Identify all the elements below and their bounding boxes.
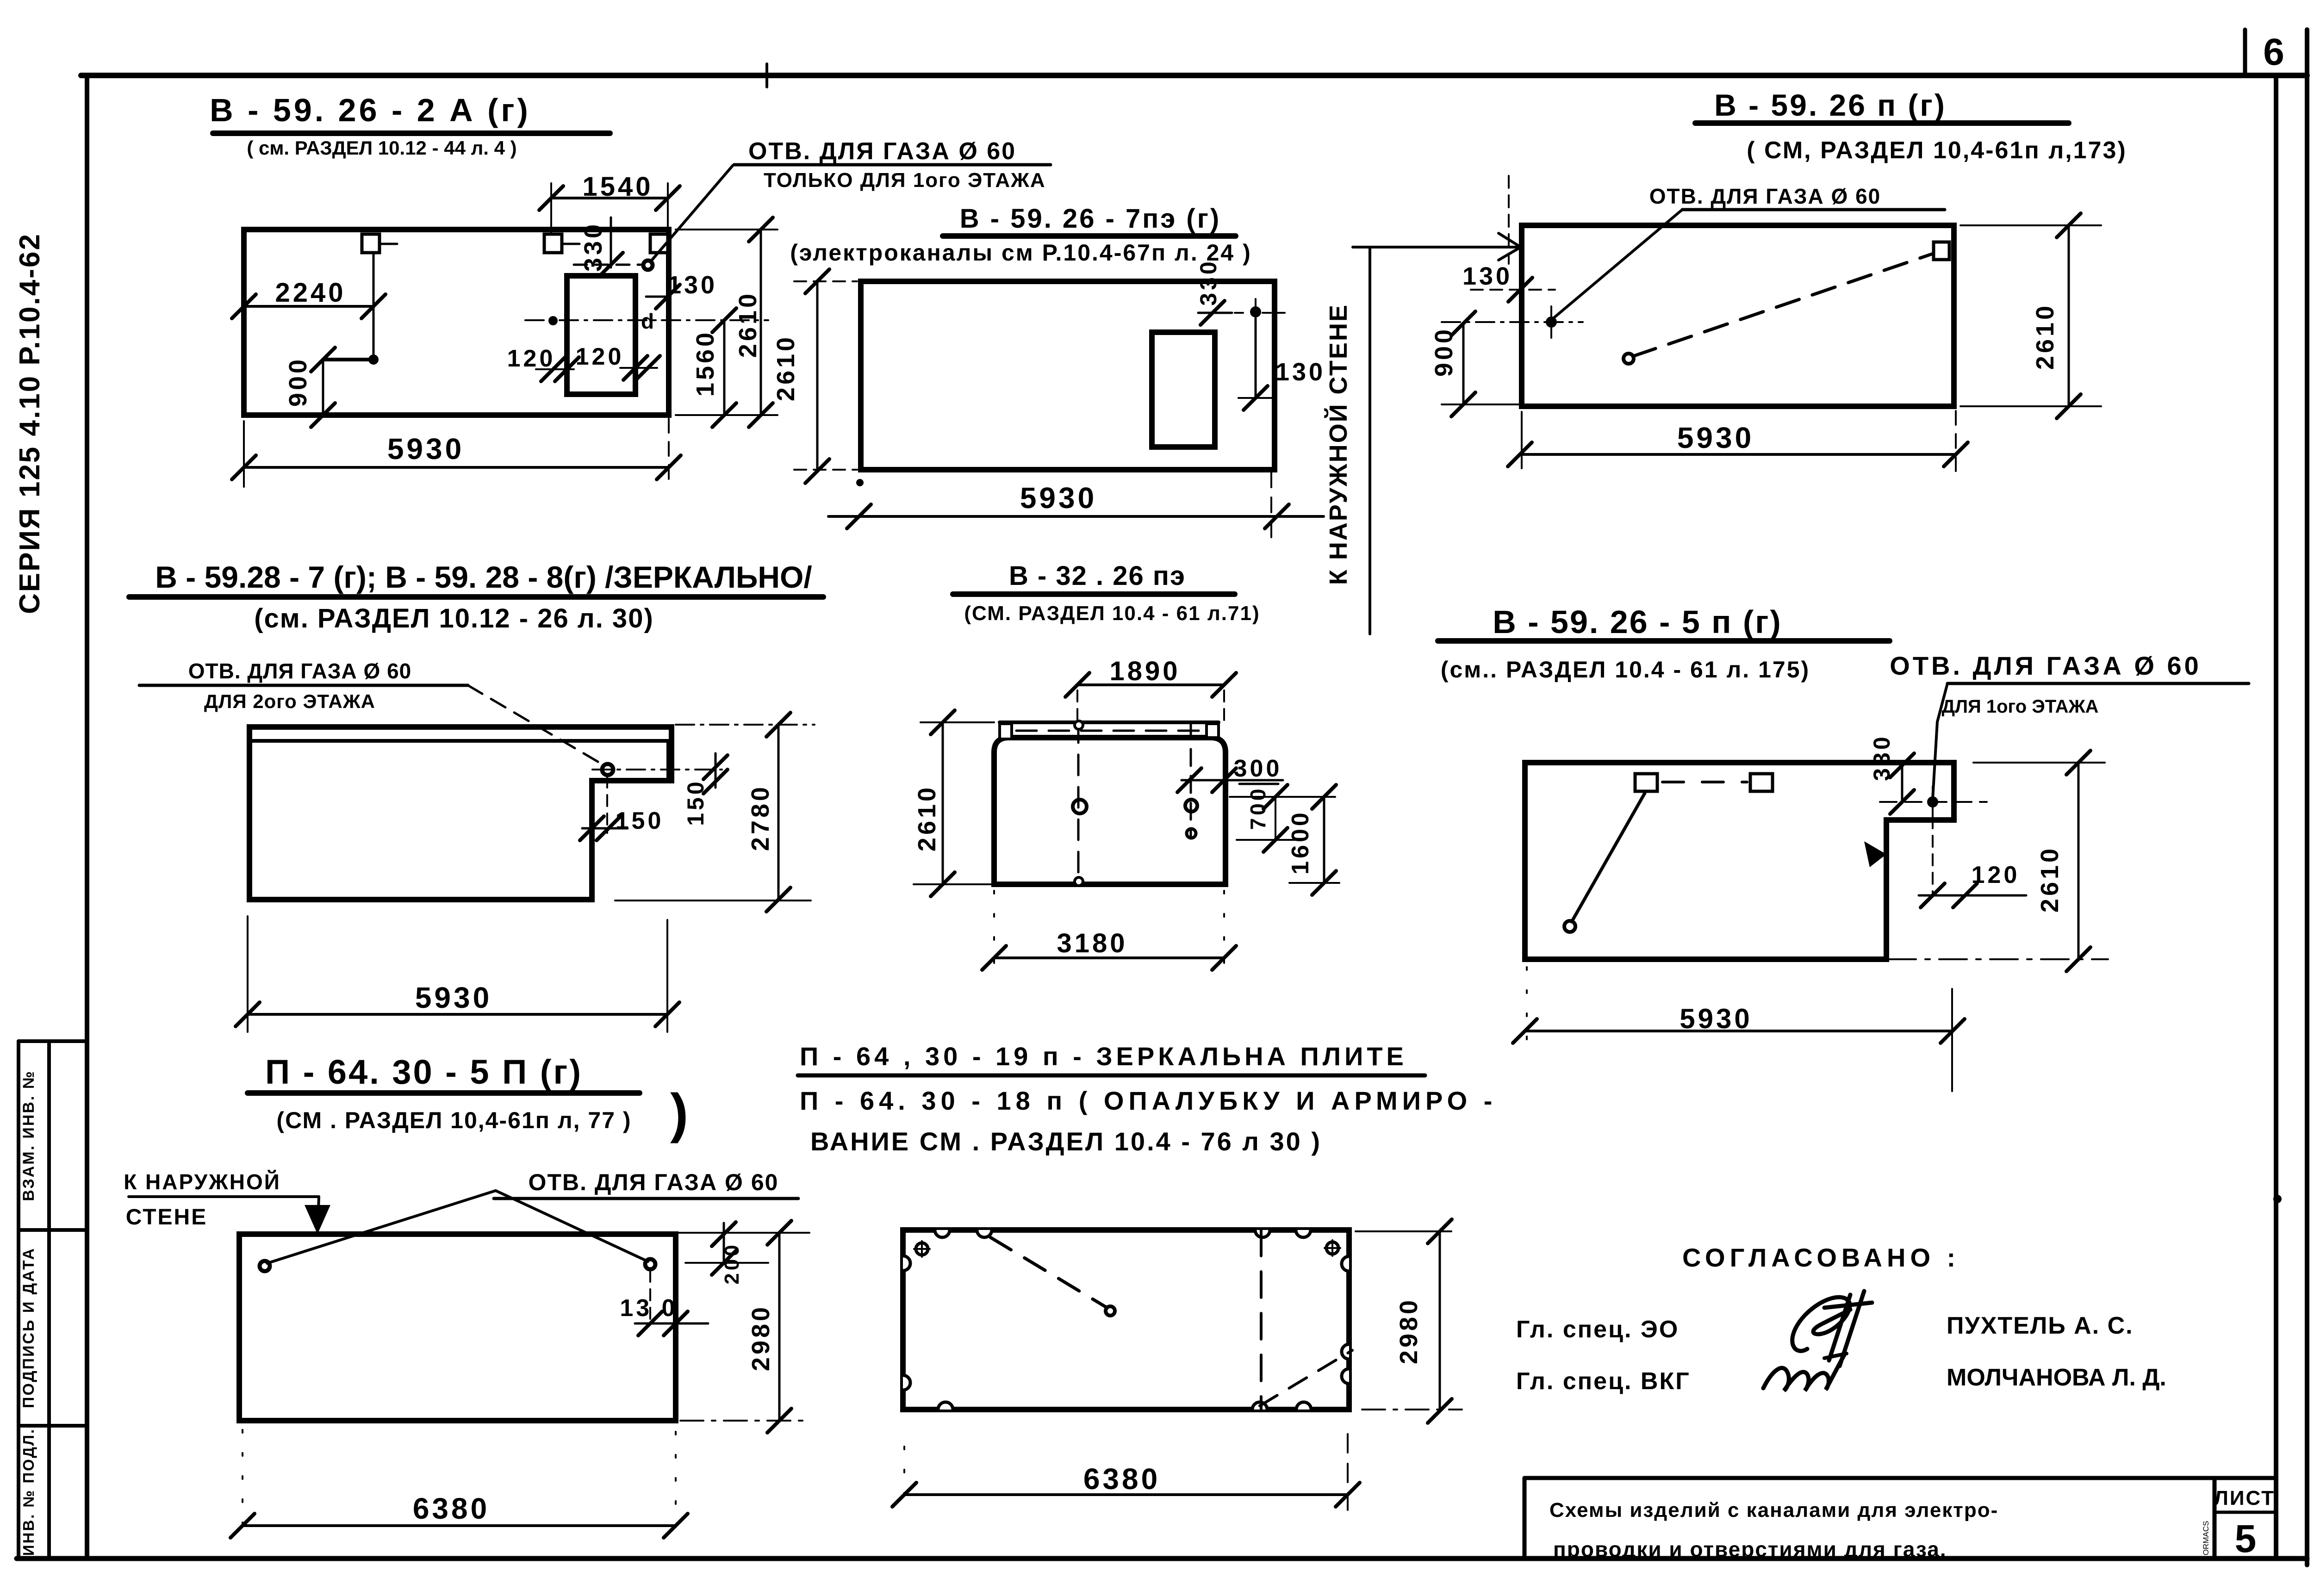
svg-text:(см. РАЗДЕЛ 10.12 - 26 л. 30: (см. РАЗДЕЛ 10.12 - 26 л. 30) [254,603,654,633]
dim 1560 line [723,320,726,415]
dim 5930 line [244,466,669,469]
svg-text:130: 130 [667,271,717,299]
bottom notch [1075,877,1083,886]
dim 2980 line [1439,1231,1441,1411]
edge notch left 1 [903,1256,910,1271]
dim 900 line [322,360,324,415]
frame left border [85,75,89,1559]
list cell divider [2213,1478,2217,1559]
top notch [1075,721,1083,729]
dot on inner right border [2273,1195,2282,1203]
edge notch bottom 1 [938,1402,953,1410]
svg-text:ПУХТЕЛЬ А. С.: ПУХТЕЛЬ А. С. [1947,1312,2134,1339]
right hole lower [1187,829,1196,838]
svg-text:ОТВ. ДЛЯ ГАЗА Ø 60: ОТВ. ДЛЯ ГАЗА Ø 60 [1649,184,1881,208]
svg-text:ДЛЯ 2ого ЭТАЖА: ДЛЯ 2ого ЭТАЖА [204,690,375,712]
extension top right [676,229,778,230]
dim 120 line [1919,894,2026,897]
svg-text:В - 59. 26 - 7пэ (г): В - 59. 26 - 7пэ (г) [960,204,1221,234]
panel P-64.30-5p(g) outline [239,1234,676,1421]
svg-text:120: 120 [507,345,556,372]
svg-text:5: 5 [2235,1517,2259,1560]
svg-text:330: 330 [1195,259,1221,305]
dashed vertical from label [1508,176,1510,264]
dashed vertical axis [1260,1230,1263,1410]
svg-text:13 0: 13 0 [620,1295,678,1322]
dashed line to gas hole [574,264,641,266]
wire from square1 down [373,253,375,360]
panel B-59.26p(g) title underline [1695,120,2069,126]
panel P-64.30-5p(g) title underline [248,1090,640,1096]
channel end circle [1564,921,1575,932]
dim 2610 line [2068,225,2070,406]
svg-text:330: 330 [579,222,607,272]
signature 1 [1792,1297,1850,1351]
frame top border [81,73,2307,78]
hole rect [1152,332,1215,447]
dashed drop to 120 dim [1932,817,1934,897]
svg-text:300: 300 [1234,755,1282,782]
dim 130 line [667,253,669,298]
svg-text:(СМ. РАЗДЕЛ 10.4 - 61 л.71): (СМ. РАЗДЕЛ 10.4 - 61 л.71) [964,602,1260,625]
dim 1890 line [1077,683,1224,686]
sidebar divider mid1 [19,1228,87,1232]
dim 300 line [1182,779,1283,782]
dim 120 right ticks [620,367,657,369]
dim 150 vertical [715,753,717,788]
dim 330 marks [1198,312,1232,314]
top strip line [249,739,668,743]
hole rect [567,276,635,394]
sidebar divider top [19,1039,87,1043]
gas hole [602,764,613,775]
svg-text:3180: 3180 [1057,928,1127,958]
svg-text:ЛИСТ: ЛИСТ [2214,1487,2275,1509]
diagonal channel [1572,793,1645,922]
extension centerline [662,319,768,321]
dim 130 dashes [1471,289,1555,291]
leader to gas hole [1933,683,1947,799]
svg-text:ОТВ. ДЛЯ ГАЗА Ø 60: ОТВ. ДЛЯ ГАЗА Ø 60 [1890,651,2201,680]
channel square 2 [544,234,562,253]
dashed diagonal channel [1633,253,1935,356]
frame outer right border [2305,30,2309,1565]
dim 330 line [1901,763,1903,802]
svg-text:(электроканалы см Р.10.4-67п: (электроканалы см Р.10.4-67п л. 24 ) [790,240,1252,266]
dim 120 left ticks [536,368,574,370]
panel P-64.30-19p outline [903,1230,1349,1410]
svg-text:150: 150 [683,779,709,826]
corner anchor circle TL [916,1243,928,1255]
wall note line horizontal with arrow [1353,246,1518,248]
dashed top line [1016,730,1203,732]
right dashed axis [1190,722,1192,838]
wire horizontal [323,358,373,361]
svg-text:ИНВ. № ПОДЛ.: ИНВ. № ПОДЛ. [20,1428,37,1556]
svg-text:2240: 2240 [275,278,346,308]
sidebar inner line [47,1041,51,1559]
svg-text:СОГЛАСОВАНО :: СОГЛАСОВАНО : [1682,1243,1960,1272]
svg-text:МОЛЧАНОВА Л. Д.: МОЛЧАНОВА Л. Д. [1947,1364,2166,1391]
dim 2240 line [244,305,373,308]
svg-text:2780: 2780 [746,784,774,851]
svg-text:В - 59. 26 п (г): В - 59. 26 п (г) [1714,88,1947,122]
svg-text:П - 64. 30 - 5 П (г): П - 64. 30 - 5 П (г) [265,1053,583,1091]
svg-text:2610: 2610 [2036,846,2064,913]
dim 200 line [723,1223,725,1263]
svg-text:5930: 5930 [415,981,492,1014]
svg-text:2610: 2610 [913,785,941,851]
svg-text:ТОЛЬКО ДЛЯ 1ого ЭТАЖА: ТОЛЬКО ДЛЯ 1ого ЭТАЖА [764,169,1046,192]
dim 3180 line [994,956,1224,959]
svg-text:П - 64 , 30 - 19 п - ЗЕРКАЛЬН: П - 64 , 30 - 19 п - ЗЕРКАЛЬНА ПЛИТЕ [800,1042,1407,1071]
gas label underline [1947,682,2249,685]
svg-text:2610: 2610 [772,335,800,401]
dashed diagonal channel [990,1237,1107,1308]
sidebar divider mid2 [19,1424,87,1428]
dim 2610 line [816,281,819,471]
svg-text:В - 59.28 - 7 (г); В - 59. 28: В - 59.28 - 7 (г); В - 59. 28 - 8(г) /ЗЕ… [155,560,812,594]
panel B-59.26-7pe(g) outline [861,281,1275,470]
gas hole dot [1927,796,1938,807]
gas hole dot [1546,317,1557,328]
edge notch right 2 [1342,1344,1349,1359]
title block top line [1524,1476,2276,1480]
leader to gas label [651,166,733,261]
sheet number cell divider [2243,30,2247,75]
svg-text:В - 32 . 26 пэ: В - 32 . 26 пэ [1009,561,1186,591]
svg-text:П - 64. 30 - 18 п ( ОПАЛУБКУ: П - 64. 30 - 18 п ( ОПАЛУБКУ И АРМИРО - [800,1086,1497,1115]
extension top left [794,280,857,282]
dim 5930 line [828,515,1324,518]
dim 130 marks [649,1271,651,1324]
dim 2980 line [778,1233,781,1421]
svg-text:5930: 5930 [387,432,464,466]
svg-text:6380: 6380 [413,1492,490,1525]
svg-text:6: 6 [2263,31,2287,73]
panel B-32.26pe outline [994,738,1225,884]
edge notch top 2 [977,1230,992,1237]
junction dot [368,354,379,365]
dim 150 horizontal [582,827,628,830]
gas hole dot [1250,306,1261,317]
svg-text:( СМ, РАЗДЕЛ 10,4-61п л,173): ( СМ, РАЗДЕЛ 10,4-61п л,173) [1747,137,2127,164]
centerline dash-dot [1442,321,1583,323]
panel B-59.26-2A(g) outline [244,230,669,415]
svg-text:В - 59. 26 - 2 А (г): В - 59. 26 - 2 А (г) [210,92,531,128]
svg-text:Гл. спец. ЭО: Гл. спец. ЭО [1516,1316,1679,1343]
list cell underline [2214,1511,2276,1514]
sidebar outer line [17,1041,20,1559]
svg-text:проводки и отверстиями д: проводки и отверстиями для газа. [1553,1537,1947,1561]
svg-text:5930: 5930 [1680,1003,1752,1034]
svg-text:ОТВ. ДЛЯ ГАЗА Ø 60: ОТВ. ДЛЯ ГАЗА Ø 60 [529,1169,779,1195]
svg-text:d: d [641,309,657,333]
svg-text:6380: 6380 [1083,1462,1160,1496]
dim 1600 line [1323,797,1325,883]
wall note line vertical [1368,248,1371,634]
gas label underline [139,684,468,687]
leader to gas hole [1553,210,1682,318]
right hole upper [1185,800,1197,812]
wall note leader [129,1195,319,1198]
svg-text:ОТВ. ДЛЯ ГАЗА Ø 60: ОТВ. ДЛЯ ГАЗА Ø 60 [748,138,1016,165]
gas label underline [734,163,1051,167]
svg-text:2610: 2610 [2031,303,2059,370]
panel B-59.26-2A(g) title underline [213,130,610,136]
svg-text:СЕРИЯ 125 4.10 Р.10.4-62: СЕРИЯ 125 4.10 Р.10.4-62 [14,233,46,614]
panel B-59.26-5p(g) title underline [1438,638,1890,644]
top outer edge [1000,720,1219,724]
panel B-32.26pe title underline [953,591,1235,597]
bottom edge extension [680,1420,809,1422]
top right tab [1207,724,1219,738]
wall note arrowhead [305,1205,330,1234]
channel square 1 [362,234,379,253]
svg-text:NORMACS: NORMACS [2202,1521,2210,1561]
svg-text:ВЗАМ. ИНВ. №: ВЗАМ. ИНВ. № [20,1070,37,1201]
svg-text:ПОДПИСЬ И ДАТА: ПОДПИСЬ И ДАТА [20,1247,37,1408]
signature 2 [1763,1355,1844,1391]
dim 2610 line [760,230,762,415]
edge notch top 4 [1296,1230,1311,1237]
channel square 1 [1635,774,1657,791]
dashes between squares [1662,781,1747,783]
dim 900 line [1462,323,1465,404]
arrow on notch edge [1864,841,1886,867]
svg-text:): ) [670,1083,690,1144]
channel end circle [1624,354,1634,364]
svg-text:2980: 2980 [1395,1298,1423,1364]
centerline dash through hole [1880,801,1987,803]
svg-text:1890: 1890 [1109,656,1180,686]
edge notch right 3 [1342,1369,1349,1384]
corner anchor circle TR [1326,1242,1338,1254]
centerline dash-dot [592,769,722,770]
extension bottom [615,900,811,901]
svg-text:К НАРУЖНОЙ СТЕНЕ: К НАРУЖНОЙ СТЕНЕ [1324,304,1352,585]
dim 5930 line [1520,453,1956,456]
extension top [676,724,815,726]
edge notch top 3 [1255,1230,1270,1237]
gas label underline [1682,208,1945,211]
dim 5930 line [248,1013,667,1016]
svg-text:1540: 1540 [582,172,653,202]
svg-text:ОТВ. ДЛЯ ГАЗА Ø 60: ОТВ. ДЛЯ ГАЗА Ø 60 [188,659,412,683]
dim 700 lines [1230,796,1335,798]
gas hole 2 [645,1259,655,1269]
svg-text:130: 130 [1275,358,1325,386]
center hole [1073,800,1087,814]
edge notch right 1 [1342,1256,1349,1271]
svg-text:ВАНИЕ СМ . РАЗДЕЛ 10.4 - 76: ВАНИЕ СМ . РАЗДЕЛ 10.4 - 76 л 30 ) [810,1127,1322,1156]
tick on top border [765,64,768,87]
svg-text:5930: 5930 [1020,481,1097,515]
dim 6380 line [904,1493,1348,1496]
edge notch bottom 2 [1252,1402,1267,1410]
svg-text:2610: 2610 [734,291,762,358]
extension bottom left [794,469,857,471]
centerline dot [548,316,558,325]
svg-text:330: 330 [1869,734,1895,781]
dim 2610 line [942,722,944,884]
channel square 2 [1750,774,1773,791]
svg-text:120: 120 [576,343,624,370]
svg-text:Схемы изделий с каналами д: Схемы изделий с каналами для электро- [1549,1499,1998,1521]
edge notch bottom 3 [1296,1402,1311,1410]
svg-text:2980: 2980 [747,1304,775,1371]
svg-text:Гл. спец. ВКГ: Гл. спец. ВКГ [1516,1368,1691,1395]
leader V right [496,1191,648,1261]
svg-text:5930: 5930 [1677,421,1754,454]
frame bottom border [17,1556,2307,1561]
dim 6380 line [243,1524,676,1527]
svg-text:130: 130 [1462,262,1512,290]
panel B-59.26p(g) outline [1522,225,1954,406]
panel B-59.26-7pe(g) title underline [943,233,1236,239]
dashed leader [468,685,603,764]
edge notch left 2 [903,1375,910,1390]
note underline [798,1074,1425,1078]
svg-text:( см. РАЗДЕЛ 10.12 - 44 л. 4: ( см. РАЗДЕЛ 10.12 - 44 л. 4 ) [247,137,516,159]
svg-text:1560: 1560 [691,330,719,397]
gas label underline [494,1197,798,1200]
panel B-59.28-7(g) title underline [129,594,823,600]
edge notch top 1 [935,1230,950,1237]
svg-text:(см.. РАЗДЕЛ 10.4 - 61 л. 17: (см.. РАЗДЕЛ 10.4 - 61 л. 175) [1441,657,1810,683]
svg-text:1600: 1600 [1287,810,1314,875]
svg-text:200: 200 [721,1242,743,1284]
gas hole 1 [260,1261,270,1271]
svg-text:СТЕНЕ: СТЕНЕ [126,1205,207,1230]
dashed diagonal 2 [1260,1350,1352,1406]
dim 5930 line [1525,1030,1953,1032]
dim 130 line [1255,318,1257,399]
svg-text:700: 700 [1246,786,1270,830]
frame inner right border [2274,75,2278,1559]
dim 330 line [610,217,612,267]
svg-text:(СМ . РАЗДЕЛ 10,4-61п л, 77: (СМ . РАЗДЕЛ 10,4-61п л, 77 ) [276,1107,631,1133]
dim 2780 line [778,725,780,900]
channel end dot [1106,1306,1115,1316]
svg-text:ДЛЯ 1ого ЭТАЖА: ДЛЯ 1ого ЭТАЖА [1941,696,2098,717]
svg-text:К НАРУЖНОЙ: К НАРУЖНОЙ [124,1170,281,1194]
dim 2610 line [2078,763,2080,959]
center dashed axis [1077,722,1080,884]
panel B-59.28-7(g) outline [249,727,672,900]
hole centerline dash-dot [525,319,657,321]
panel B-59.26-5p(g) outline [1525,763,1954,959]
svg-text:В - 59. 26 - 5 п (г): В - 59. 26 - 5 п (г) [1493,604,1782,640]
gas hole [643,261,653,270]
top edge extension [676,1232,809,1234]
leader V left [267,1191,496,1263]
channel end square [1934,242,1949,260]
svg-text:900: 900 [1430,327,1458,377]
top left tab [1000,724,1012,739]
title block left edge [1523,1478,1527,1559]
dim 1540 line [551,197,668,199]
svg-text:120: 120 [1972,862,2020,888]
channel square 3 [650,234,668,253]
svg-text:150: 150 [616,807,664,834]
svg-text:900: 900 [284,357,312,407]
extension bottom right [676,414,778,416]
